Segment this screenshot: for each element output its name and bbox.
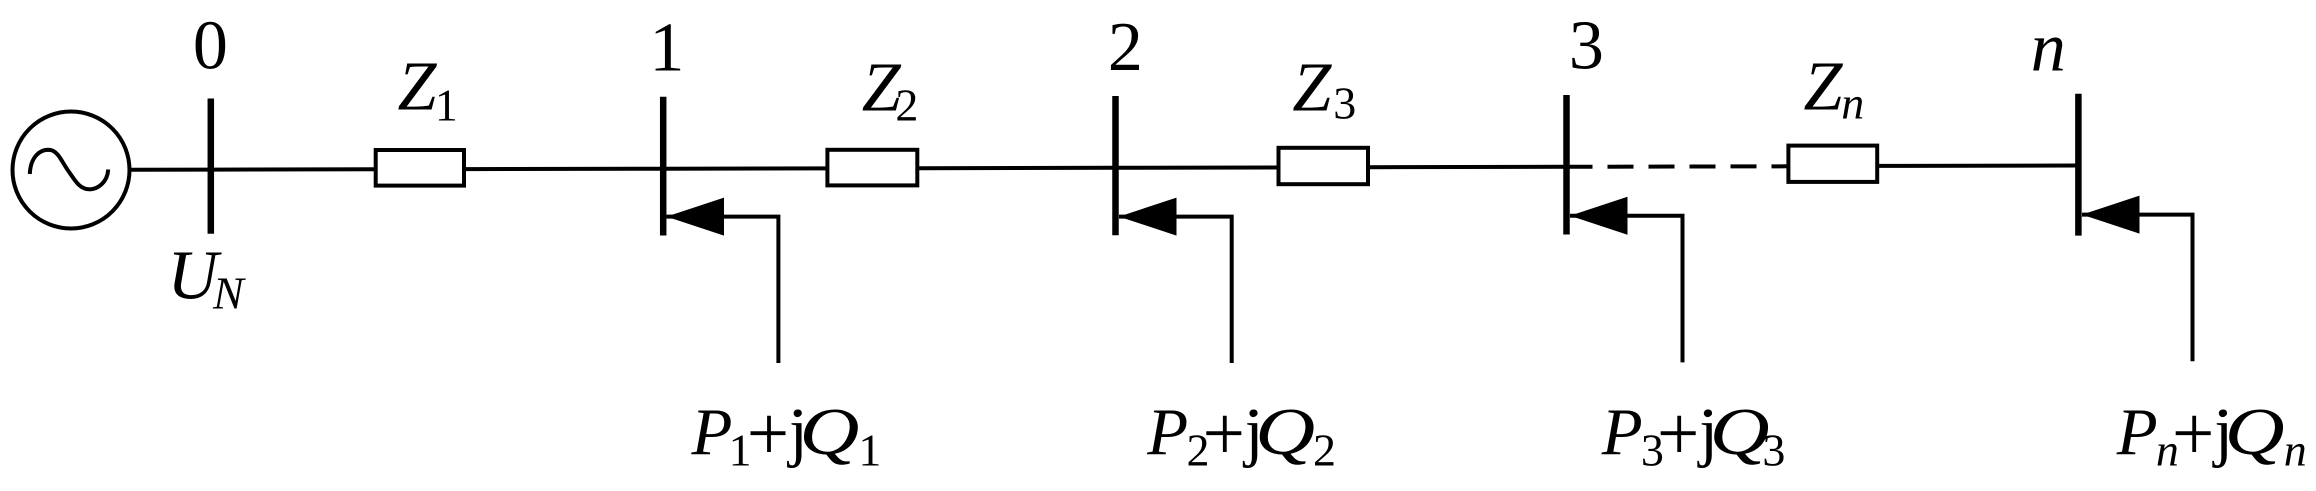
svg-text:P: P — [2116, 395, 2158, 469]
load wire at bus 1 — [667, 217, 779, 363]
svg-text:2: 2 — [1313, 425, 1336, 476]
wire bus 2 to Z3 — [1116, 166, 1280, 170]
load wire at bus 2 — [1119, 217, 1232, 363]
svg-text:2: 2 — [1187, 425, 1210, 476]
svg-text:n: n — [1841, 78, 1864, 129]
svg-text:1: 1 — [858, 425, 881, 476]
svg-text:P: P — [1146, 395, 1188, 469]
svg-text:3: 3 — [1762, 425, 1785, 476]
sine wave inside source — [30, 150, 108, 189]
label P3+jQ3 — [1601, 395, 1786, 476]
load arrow at bus 1 — [667, 198, 725, 236]
load wire at bus 3 — [1570, 216, 1683, 363]
svg-text:Z: Z — [1292, 49, 1332, 126]
svg-text:3: 3 — [1641, 425, 1664, 476]
svg-text:2: 2 — [1108, 9, 1143, 86]
svg-text:Z: Z — [1804, 48, 1844, 125]
wire Z3 to bus 3 — [1368, 165, 1567, 169]
label UN — [167, 237, 246, 318]
impedance Z1 — [376, 150, 464, 186]
svg-text:1: 1 — [435, 79, 458, 130]
wire Zn to bus n — [1877, 164, 2078, 168]
load arrow at bus n — [2082, 196, 2140, 234]
load arrow at bus 3 — [1570, 197, 1628, 235]
svg-text:3: 3 — [1569, 7, 1604, 84]
wire bus 1 to Z2 — [663, 166, 828, 170]
load arrow at bus 2 — [1119, 198, 1177, 236]
wire source to bus 0 — [130, 168, 211, 172]
label Z2 — [862, 49, 919, 130]
label Z3 — [1292, 49, 1356, 128]
dashed wire bus 3 to Zn — [1567, 164, 1789, 169]
svg-text:1: 1 — [729, 425, 752, 476]
svg-text:0: 0 — [193, 8, 228, 85]
svg-text:2: 2 — [895, 79, 918, 130]
svg-text:N: N — [212, 268, 246, 319]
bus 1 — [660, 97, 667, 236]
label P1+jQ1 — [691, 395, 882, 476]
bus 2 — [1112, 96, 1119, 235]
svg-text:n: n — [2156, 425, 2179, 476]
impedance Z3 — [1279, 148, 1369, 184]
svg-text:Z: Z — [398, 48, 438, 125]
AC source generator circle — [13, 112, 130, 229]
svg-text:P: P — [691, 395, 733, 469]
bus n — [2075, 94, 2082, 236]
label Pn+jQn — [2116, 395, 2307, 476]
svg-text:Q: Q — [1710, 395, 1770, 469]
bus 3 — [1563, 95, 1570, 235]
svg-text:Q: Q — [1255, 395, 1315, 469]
impedance Z2 — [827, 150, 917, 186]
label Zn — [1804, 48, 1865, 128]
svg-text:n: n — [2284, 425, 2307, 476]
wire Z1 to bus 1 — [464, 167, 663, 171]
wire Z2 to bus 2 — [917, 166, 1115, 170]
bus 0 — [208, 99, 215, 234]
svg-text:P: P — [1601, 395, 1643, 469]
label P2+jQ2 — [1146, 395, 1336, 476]
svg-text:3: 3 — [1333, 78, 1356, 129]
load wire at bus n — [2082, 215, 2193, 362]
svg-text:n: n — [2031, 9, 2066, 86]
svg-text:1: 1 — [649, 9, 684, 86]
label Z1 — [398, 48, 458, 130]
svg-text:Q: Q — [799, 395, 859, 469]
svg-text:Q: Q — [2225, 395, 2285, 469]
wire bus 0 to Z1 — [211, 167, 377, 171]
impedance Zn — [1788, 146, 1877, 182]
